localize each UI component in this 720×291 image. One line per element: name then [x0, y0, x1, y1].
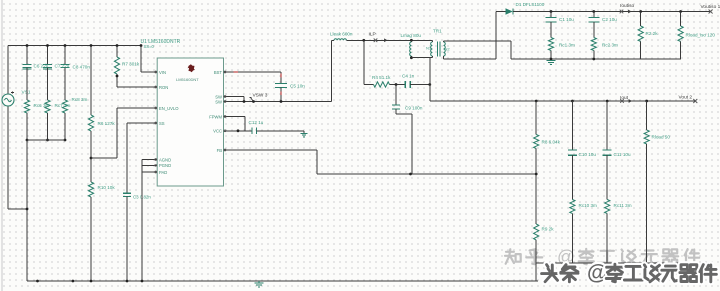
svg-text:Rc7 3m: Rc7 3m — [55, 103, 71, 108]
svg-text:VSW 3: VSW 3 — [253, 93, 268, 99]
svg-text:R7 301k: R7 301k — [122, 62, 140, 67]
svg-text:C5 10n: C5 10n — [290, 84, 305, 89]
svg-text:SW: SW — [215, 99, 222, 104]
svg-text:Lleak 600n: Lleak 600n — [330, 32, 353, 37]
svg-text:Rc1 3m: Rc1 3m — [559, 43, 575, 48]
svg-text:SS: SS — [159, 121, 165, 126]
svg-text:ILP: ILP — [369, 32, 376, 38]
svg-text:R10 10k: R10 10k — [98, 185, 116, 190]
svg-text:Rload 50: Rload 50 — [652, 135, 671, 140]
svg-text:VS1: VS1 — [22, 90, 31, 96]
svg-text:Lmag 80u: Lmag 80u — [401, 33, 422, 38]
svg-text:C8 470n: C8 470n — [73, 65, 91, 70]
svg-text:C11 10u: C11 10u — [614, 152, 631, 157]
svg-text:C2 10u: C2 10u — [602, 17, 617, 22]
svg-text:Voutiso 1: Voutiso 1 — [701, 4, 720, 10]
svg-text:FB: FB — [217, 148, 223, 153]
svg-text:VIN: VIN — [159, 70, 166, 75]
svg-text:LM5160DNT: LM5160DNT — [176, 77, 199, 82]
svg-text:C12 1u: C12 1u — [249, 120, 264, 125]
svg-text:Rload_iso 120: Rload_iso 120 — [686, 33, 716, 38]
svg-text:C6 22u: C6 22u — [34, 64, 49, 69]
svg-text:BST: BST — [214, 70, 223, 75]
svg-text:SS=0: SS=0 — [144, 44, 155, 49]
svg-text:C4 1n: C4 1n — [402, 74, 415, 79]
svg-text:Vout 2: Vout 2 — [679, 95, 693, 101]
svg-text:AGND: AGND — [159, 157, 171, 162]
svg-text:Rc10 3m: Rc10 3m — [579, 203, 598, 208]
svg-text:C9 100n: C9 100n — [405, 106, 423, 111]
svg-text:N2: N2 — [445, 47, 451, 52]
svg-text:R2 2k: R2 2k — [646, 31, 659, 36]
svg-text:Rc6 3m: Rc6 3m — [34, 103, 50, 108]
svg-text:R6 127k: R6 127k — [98, 121, 116, 126]
svg-text:R8 6.04k: R8 6.04k — [542, 140, 561, 145]
svg-text:N1: N1 — [426, 46, 432, 51]
svg-text:Ioutiso: Ioutiso — [620, 3, 634, 9]
svg-text:FPWM: FPWM — [209, 114, 222, 119]
svg-text:C1 10u: C1 10u — [559, 17, 574, 22]
svg-text:Rc11 3m: Rc11 3m — [614, 203, 632, 208]
svg-text:R4 51.1k: R4 51.1k — [372, 75, 391, 80]
svg-text:PAD: PAD — [159, 170, 167, 175]
svg-text:C7 22u: C7 22u — [55, 64, 70, 69]
svg-text:D1 DFLS1100: D1 DFLS1100 — [516, 2, 545, 7]
svg-text:Rc2 3m: Rc2 3m — [602, 43, 618, 48]
svg-text:Iout: Iout — [620, 95, 629, 101]
svg-text:Rc8 3m: Rc8 3m — [72, 97, 88, 102]
svg-text:TR1: TR1 — [433, 29, 442, 34]
svg-text:RON: RON — [159, 85, 168, 90]
svg-text:R9 2k: R9 2k — [542, 227, 555, 232]
svg-text:VCC: VCC — [213, 129, 222, 134]
svg-text:C10 10u: C10 10u — [579, 152, 597, 157]
svg-text:EN_UVLO: EN_UVLO — [159, 106, 179, 111]
svg-text:PGND: PGND — [159, 163, 171, 168]
